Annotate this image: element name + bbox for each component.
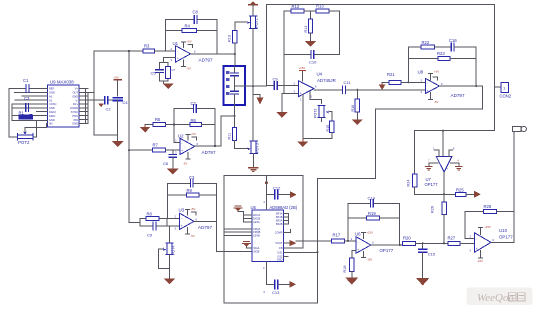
wire U1 +input to C5/C7 [160,58,176,84]
wire U5 outer loop box [224,176,303,303]
capacitor C7 [174,101,215,112]
svg-text:R17: R17 [333,232,341,237]
svg-text:-15V: -15V [477,259,483,263]
wire sensor mid node to top rail riser [235,85,267,87]
op-amp U8 AD797 [418,70,465,105]
wire U2 feedback verticals [174,108,215,146]
svg-text:+: + [181,224,183,228]
svg-text:A0: A0 [49,94,53,98]
svg-text:R25: R25 [456,188,464,193]
watermark WeeQoo [467,288,533,306]
svg-text:+5V: +5V [190,207,195,211]
capacitor C9 (U3 input) [147,222,156,237]
op-amp U6 OP177 [351,230,394,261]
svg-text:A1: A1 [49,98,53,102]
svg-text:+: + [476,247,478,251]
resistor R8 [146,212,159,221]
ground below R18 [345,278,358,285]
svg-text:AD797: AD797 [451,93,465,98]
svg-text:GND: GND [72,122,78,126]
capacitor C8 [165,10,217,24]
capacitor C12 [264,176,297,210]
wire jog from feed vertical [129,218,180,226]
resistor R11 [228,127,249,148]
capacitor C3 [24,96,30,111]
capacitor sensor top [234,66,236,73]
svg-text:COMP: COMP [275,231,283,235]
op-amp U10 OP177 [470,225,514,263]
capacitor C9b (U4 input) [266,77,298,90]
IC U5 AD698AD [251,205,298,262]
svg-text:V-: V- [76,98,79,102]
capacitor C5 [151,70,164,77]
wire U3 feedback verticals [168,183,217,221]
svg-text:PDI: PDI [74,118,79,122]
op-amp U3 AD797 [175,207,213,238]
U9 right pin labels [70,87,78,126]
resistor R15 [326,121,334,139]
svg-text:AD698AD (2B): AD698AD (2B) [270,205,298,210]
resistor R9 [168,188,217,197]
wire U9 OUT up and right to R3 [94,51,143,92]
svg-text:LEVA: LEVA [253,220,260,224]
svg-text:GND: GND [49,91,55,95]
svg-text:OP177: OP177 [499,234,513,239]
svg-text:-: - [181,142,182,146]
svg-text:GND: GND [49,106,55,110]
svg-text:POT2: POT2 [313,109,317,118]
capacitor C11 [343,80,426,94]
wire long vertical feed x128.9 [128,51,130,222]
svg-text:OS1: OS1 [277,250,283,254]
svg-text:R16: R16 [351,105,355,112]
svg-text:C9: C9 [273,77,279,82]
svg-text:BF1B: BF1B [276,215,283,219]
connector CON2 [500,82,512,98]
svg-text:POT4: POT4 [172,246,176,255]
svg-text:BF2B: BF2B [276,222,283,226]
svg-text:U5: U5 [251,205,257,210]
svg-text:R5: R5 [155,117,161,122]
ground below R16 [352,120,363,126]
svg-text:GND: GND [49,118,55,122]
svg-text:VOUT: VOUT [275,241,283,245]
svg-text:CON2: CON2 [500,94,512,99]
U5 left pin group2 wires [224,229,252,236]
svg-text:OUT: OUT [73,91,79,95]
U5 right pin labels [275,212,283,262]
wire U4 +input to ground [282,94,299,113]
capacitor C4 [113,98,128,141]
resistor R21 [382,72,425,84]
ground below C6 [167,169,179,175]
pot POT3 [247,141,260,167]
svg-text:POT2: POT2 [18,140,30,145]
svg-text:DADJ: DADJ [49,110,56,114]
wire R12 box sides [284,11,340,55]
svg-text:R4: R4 [185,24,191,29]
svg-text:R22: R22 [422,40,430,45]
wire POT4 wiper loop [158,249,169,279]
svg-text:COSC: COSC [49,102,57,106]
svg-text:R24: R24 [407,180,411,187]
svg-text:C7: C7 [172,68,176,72]
svg-text:R27: R27 [448,236,456,241]
svg-text:-: - [357,240,358,244]
svg-text:R7: R7 [153,143,159,148]
svg-text:R20: R20 [403,236,411,241]
op-amp U4 AD745JR [294,72,336,102]
resistor R3 [143,44,176,54]
capacitor C15 [419,243,436,278]
wire U2 -input [174,141,180,143]
pot POT1 [246,16,259,141]
wire U6 feedback verticals [348,203,400,245]
small ground arrow below C2 [98,103,104,107]
capacitor sensor bottom [231,90,239,92]
connector jack J1 [512,126,526,211]
wire left vertical x9 [8,88,10,136]
svg-text:GND: GND [277,258,283,262]
pot POT4 [163,243,176,255]
svg-text:C6: C6 [163,161,169,166]
wire VOUT to R17 [296,240,331,242]
svg-text:U3: U3 [179,208,185,213]
pot POT2b (offset trim) [313,106,329,122]
svg-text:R21: R21 [387,72,395,77]
U9 left pin labels [49,87,57,126]
wire U10 output [491,241,514,243]
svg-text:C8: C8 [193,10,199,15]
ground below C4 [112,141,125,147]
resistor R13 [316,4,340,13]
ground below U4 input [276,112,287,118]
svg-text:POT3: POT3 [256,143,260,153]
wire CON2 stub [495,86,501,88]
svg-text:C14: C14 [368,195,376,200]
resistor R25 with port arrow [444,188,481,198]
svg-text:FADJ: FADJ [49,114,56,118]
wire U10 feedback left vertical [465,212,474,239]
svg-text:REF: REF [49,87,55,91]
svg-text:C3: C3 [24,96,30,101]
power +5V U9 [114,76,122,96]
svg-text:U10: U10 [499,228,508,233]
resistor R10 [228,31,238,66]
op-amp U1 AD797 [171,40,213,71]
op-amp U7 OP177 (pointing down) [425,148,462,187]
wire POT2b wiper to R15 [330,112,332,122]
power +15V U4 [299,66,306,81]
svg-text:U8: U8 [418,70,424,75]
svg-text:+: + [446,167,448,171]
svg-text:+5V: +5V [187,40,192,44]
svg-text:U4: U4 [317,72,323,77]
svg-text:POT1: POT1 [255,18,259,28]
wire U3 output then down to U5 [194,221,252,251]
power pins to small grounds [429,163,438,167]
svg-text:R28: R28 [484,204,492,209]
svg-text:DV+: DV+ [73,102,79,106]
ground inverted at top [249,1,257,16]
svg-text:V+: V+ [75,87,79,91]
resistor R19 [348,211,400,220]
U5 right pin group wires [284,214,318,257]
svg-text:+: + [427,89,429,93]
svg-text:C2: C2 [106,107,112,112]
svg-text:AD797: AD797 [199,58,213,63]
svg-text:+15V: +15V [484,225,491,229]
ground arrow below sensor box [256,98,263,105]
svg-text:SIGB: SIGB [253,250,259,254]
node: junction to lower stages [128,50,130,52]
wire U8 feedback verticals [408,47,476,86]
capacitor C1 [9,78,43,92]
resistor R20 [403,236,448,246]
svg-text:IIN: IIN [49,122,52,126]
ground U5 top-left [234,206,242,212]
capacitor C3b (U3 feedback) [168,175,217,187]
svg-text:FRQB: FRQB [253,230,260,234]
svg-text:R3: R3 [144,44,150,49]
resistor R7 [129,143,180,153]
svg-text:+5V: +5V [191,132,196,136]
wire POT1 wiper to R10 [235,22,247,30]
port arrow on U8 lower input wire [379,84,386,90]
ground below trim network [297,139,308,148]
power arrow below R14 [305,41,316,47]
resistor R22 [408,40,451,49]
svg-text:+: + [181,149,183,153]
sensor box (DUT) [223,66,245,105]
resistor R18 [343,258,354,278]
svg-text:BF2A: BF2A [276,219,283,223]
svg-text:AD745JR: AD745JR [317,78,336,83]
pot R1 [19,111,33,119]
wire U4 output [314,89,343,91]
svg-text:OP177: OP177 [425,182,439,187]
svg-text:C15: C15 [428,251,436,256]
svg-text:C10: C10 [309,60,317,65]
svg-text:R13: R13 [316,4,324,9]
resistor R16 [351,90,359,120]
svg-text:LEVB: LEVB [253,234,260,238]
port arrow VOUT [290,240,297,246]
svg-text:EXCB: EXCB [253,217,260,221]
svg-text:EXCA: EXCA [253,213,260,217]
resistor R27 [448,236,475,246]
capacitor C16 [449,38,476,51]
U5 left pin group3 wires + ground [247,247,252,248]
resistor R17 [332,232,356,243]
capacitor C14 [348,195,400,207]
svg-text:-15V: -15V [366,258,372,262]
svg-text:OP177: OP177 [380,248,394,253]
svg-text:-: - [181,217,182,221]
wire U9 gnd jog to C4 vertical [94,92,118,135]
svg-text:AD797: AD797 [202,150,216,155]
U9 left pin stub wires [12,88,48,123]
ground arrow below C15 [416,278,429,286]
svg-text:C11: C11 [344,80,352,85]
svg-text:+15V: +15V [366,230,373,234]
svg-text:U9 MAX038: U9 MAX038 [50,80,74,85]
wire U6 +input to R18 [352,250,356,258]
svg-text:AD797: AD797 [198,225,212,230]
wire U6 output [371,244,403,246]
svg-text:R14: R14 [304,26,308,33]
svg-text:-: - [177,49,178,53]
wire U2 output [195,145,221,147]
svg-text:-5V: -5V [187,67,191,71]
svg-text:R12: R12 [292,4,300,9]
svg-text:C1: C1 [23,78,29,83]
svg-text:BF1A: BF1A [276,212,283,216]
svg-text:R19: R19 [368,211,376,216]
resistor R28 [465,204,514,214]
wire stub to analog-ground arrow [253,95,260,98]
svg-text:DGND: DGND [70,106,78,110]
op-amp U2 AD797 [175,132,216,166]
svg-text:SYNC: SYNC [71,110,78,114]
svg-text:C16: C16 [449,38,457,43]
wire POT2 wiper to IIN [25,124,47,132]
svg-text:-: - [300,84,301,88]
svg-text:-5V: -5V [190,234,194,238]
wire U3 +input down to POT4 [168,226,170,243]
svg-text:R10: R10 [228,35,232,42]
offset pins (ears) [435,150,440,157]
capacitor C13 [263,262,296,295]
wire U1 output [191,53,235,55]
resistor R12 [284,4,316,13]
svg-text:+: + [300,92,302,96]
wire U2 output rise to R11 node [221,116,234,146]
wire U1 feedback box verticals [165,19,217,54]
resistor R4 [165,24,217,33]
ground left of R5 [140,125,153,133]
wire U8 output loop down-left [224,86,483,303]
wire U4 offset pins down [303,92,332,139]
svg-text:+5V: +5V [114,76,119,80]
capacitor C7a (electrolytic body) [166,67,176,79]
U5 left pin group1 wires to ground [238,212,252,223]
resistor R23 [408,51,476,60]
svg-text:R9: R9 [187,188,193,193]
svg-text:FB: FB [279,246,283,250]
svg-text:SIGA: SIGA [253,246,259,250]
wire CON2 rail to U7 [415,131,495,174]
svg-text:R26: R26 [430,206,434,213]
svg-text:-5V: -5V [183,162,187,166]
wire U7 output down [443,172,445,194]
svg-text:R23: R23 [437,51,445,56]
ground bar under POT3 [249,168,258,172]
svg-text:R8: R8 [147,212,153,217]
svg-text:C13: C13 [272,290,280,295]
pot POT2 [9,121,37,145]
svg-text:+: + [357,248,359,252]
svg-text:R11: R11 [228,133,232,140]
svg-text:R18: R18 [343,266,347,273]
svg-text:C4: C4 [123,100,129,105]
svg-text:+5V: +5V [434,70,439,74]
wire R12 box corner down across input [283,55,285,94]
svg-text:U2: U2 [178,134,184,139]
capacitor C6 [163,150,177,168]
svg-text:+15V: +15V [299,66,306,70]
svg-text:U6: U6 [355,231,361,236]
wire top rail [266,4,494,130]
svg-text:PDO: PDO [72,114,78,118]
svg-text:FRQA: FRQA [253,227,260,231]
U5 left pin labels [253,213,260,253]
resistor R5 [153,117,190,127]
svg-text:+: + [177,57,179,61]
svg-text:C9: C9 [147,233,153,238]
ground below C5/C7 [163,84,174,90]
svg-text:-: - [476,237,477,241]
resistor R26 [430,194,446,243]
IC U9 MAX038 [48,80,80,128]
resistor R14 [304,11,313,41]
svg-text:-: - [427,81,428,85]
wire sensor box bottom to R11 [234,105,236,127]
U9 right pin stub wires + bus verticals [79,88,105,123]
wire left vertical x12 [11,104,13,121]
ground below POT4 [164,279,175,285]
svg-text:-5V: -5V [434,100,438,104]
capacitor C2 [86,97,118,112]
capacitor C10 [309,51,317,65]
resistor R6 [190,118,215,127]
resistor R24 [407,174,445,194]
svg-text:GND: GND [72,94,78,98]
